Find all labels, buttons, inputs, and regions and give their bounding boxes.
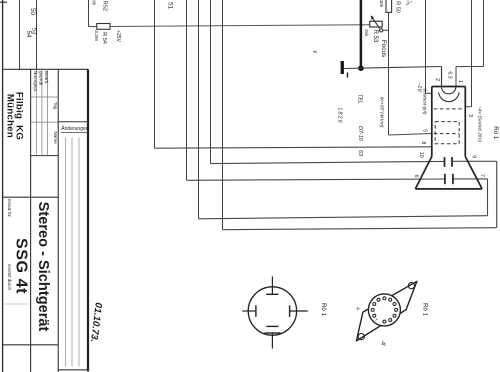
CRT deflection plate pair 2: [444, 174, 446, 184]
svg-text:50: 50: [29, 8, 36, 15]
wire to pin 10 (vertical part): [210, 0, 212, 164]
svg-text:3,3M: 3,3M: [93, 30, 99, 41]
CRT heater arc: [441, 87, 456, 94]
socket view pin W: [242, 310, 256, 312]
svg-text:+25V: +25V: [115, 30, 121, 42]
socket view pin N: [271, 276, 273, 294]
wire 51 vertical: [154, 0, 156, 148]
svg-text:Stereo - Sichtgerät: Stereo - Sichtgerät: [35, 202, 51, 332]
svg-text:R 50: R 50: [395, 1, 401, 13]
svg-text:Rö 1: Rö 1: [492, 126, 499, 140]
potentiometer R53 (Focus): [370, 21, 382, 27]
svg-text:3: 3: [467, 114, 473, 117]
svg-text:1.8.2.6: 1.8.2.6: [337, 107, 343, 123]
wire to pin 10 (horizontal part): [211, 161, 445, 163]
fill line: [5, 303, 30, 305]
svg-text:2: 2: [434, 78, 440, 81]
ground: [341, 61, 344, 74]
flange keyway tick: [376, 319, 378, 321]
svg-text:90+95°(4kVm): 90+95°(4kVm): [379, 97, 385, 128]
svg-text:10: 10: [418, 152, 424, 158]
pin 3 wire from top: [471, 0, 473, 107]
svg-text:51: 51: [167, 2, 174, 9]
svg-text:9k: 9k: [92, 0, 97, 6]
flange center circle: [368, 294, 400, 326]
svg-text:SSG 4t: SSG 4t: [13, 238, 30, 294]
speck: [313, 51, 317, 54]
pencil mark: [406, 0, 412, 5]
wire 53 (left vertical): [36, 0, 38, 70]
svg-text:geprüft: geprüft: [38, 71, 43, 86]
grid wire from top to socket: [425, 0, 427, 93]
svg-text:Focus: Focus: [380, 40, 387, 57]
svg-text:63: 63: [357, 150, 363, 157]
junction dot: [358, 65, 364, 71]
title block frame: [3, 68, 88, 70]
wire R54 to focus pot R53: [110, 25, 370, 27]
wire to pin 6 (vertical part): [186, 0, 188, 180]
resistor R50: [386, 0, 392, 12]
socket flange view (diamond): [356, 281, 417, 341]
wire to pin 7 (vertical part): [198, 0, 200, 219]
page frame corner stub: [0, 1, 7, 3]
svg-text:15k: 15k: [363, 29, 369, 37]
ground wire: [343, 67, 441, 69]
wire to pin 9 (vertical part): [222, 0, 224, 230]
svg-text:54: 54: [25, 31, 32, 38]
resistor R54: [97, 24, 110, 30]
svg-text:7: 7: [479, 174, 485, 177]
CRT dashed focus electrode: [434, 133, 459, 135]
svg-text:5: 5: [421, 129, 427, 132]
CRT tube Rö1 envelope: [415, 87, 482, 189]
wire 54 (left vertical): [19, 0, 21, 70]
wire pin 7 loop (bottom horizontal): [199, 216, 488, 219]
svg-text:30k: 30k: [379, 0, 384, 8]
Änderungen box: [58, 121, 88, 123]
svg-text:TEL: TEL: [357, 94, 363, 104]
heater wire pin 1 from top: [483, 0, 485, 67]
svg-text:Filbig KG: Filbig KG: [14, 92, 25, 140]
heater wire down to tube pin 2: [441, 67, 443, 87]
socket view pin S: [266, 325, 278, 327]
page left border: [2, 0, 4, 372]
svg-text:Normgepr.: Normgepr.: [33, 71, 38, 92]
flange mounting hole 2: [358, 334, 364, 340]
svg-text:D7-16: D7-16: [357, 126, 363, 142]
svg-text:R 54: R 54: [101, 32, 107, 44]
CRT anode dashed box: [435, 122, 459, 144]
title block approval table: [31, 69, 59, 155]
svg-text:Ersatz für: Ersatz für: [7, 199, 12, 218]
svg-text:(müdest-gut): (müdest-gut): [423, 88, 428, 115]
svg-text:Rö 1: Rö 1: [320, 303, 327, 317]
CRT deflection plate pair 1: [444, 157, 446, 167]
wire to pin 6 (horizontal part): [187, 179, 445, 180]
anode supply thick wire: [360, 0, 363, 68]
svg-text:1: 1: [457, 80, 463, 83]
svg-text:6: 6: [413, 175, 419, 178]
svg-text:9: 9: [470, 155, 476, 158]
CRT grid dashed line: [434, 108, 464, 110]
wire pin 9 loop (bottom horizontal): [223, 228, 497, 230]
CRT cathode arc: [439, 92, 460, 101]
svg-text:Bearb.: Bearb.: [44, 71, 49, 85]
svg-text:R52: R52: [102, 1, 108, 11]
svg-text:8: 8: [420, 141, 426, 144]
svg-text:4-: 4-: [356, 307, 361, 312]
svg-text:6,3: 6,3: [446, 71, 452, 78]
wire to pin 8: [155, 147, 432, 148]
R53 wiper terminal: [380, 29, 383, 32]
svg-text:Tag: Tag: [53, 102, 58, 110]
flange mounting hole 1: [408, 283, 414, 289]
socket view pin E: [290, 310, 308, 312]
svg-text:Änderungen: Änderungen: [61, 125, 88, 132]
socket view Rö 1 (round): [248, 287, 296, 335]
flange pin holes: [371, 297, 397, 323]
svg-text:R 53: R 53: [372, 30, 378, 43]
svg-text:-4f: -4f: [380, 340, 386, 346]
svg-text:~4V (Sockel 28V): ~4V (Sockel 28V): [478, 106, 483, 142]
svg-text:−1V: −1V: [416, 82, 422, 93]
svg-text:Name: Name: [53, 131, 58, 144]
wire from top into R54: [88, 0, 90, 27]
focus wire R50 to wiper to pin 5: [388, 12, 390, 135]
svg-text:ersetzt durch: ersetzt durch: [7, 264, 12, 291]
svg-text:Rö 1: Rö 1: [422, 303, 429, 317]
